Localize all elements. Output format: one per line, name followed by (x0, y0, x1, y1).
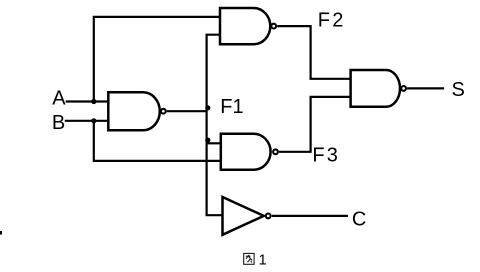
caption glyph 图 (drawn) (244, 253, 254, 264)
node F1 junction dot (205, 105, 210, 110)
svg-text:C: C (352, 208, 366, 230)
wire A branch up to gate U2 pin1 (94, 17, 220, 102)
inverter U5 (output C) (223, 197, 264, 235)
svg-text:B: B (52, 112, 65, 134)
wire S output (407, 87, 444, 89)
wire C output (272, 215, 348, 217)
wire net F1 vertical: up to U2 pin2, down to inverter input (207, 35, 223, 216)
bubble of U4 (273, 149, 278, 154)
nand gate U1 (inputs A,B) (108, 92, 160, 130)
wire A lead (66, 100, 109, 102)
svg-text:F1: F1 (220, 96, 243, 118)
svg-text:S: S (452, 79, 465, 101)
nand gate U3 (output S) (351, 70, 400, 107)
stray mark at left edge (0, 231, 2, 235)
svg-text:F2: F2 (318, 10, 346, 32)
svg-text:A: A (52, 88, 66, 110)
bubble of U5 (266, 214, 271, 219)
wire F3 from U4 output up to U3 pin2 (279, 97, 351, 152)
bubble of U2 (271, 24, 276, 29)
junction dot on B (91, 118, 96, 123)
wire B lead (65, 120, 109, 122)
wire F2 from U2 output down to U3 pin1 (277, 26, 350, 79)
wire stub F1 to U4 pin1 (207, 142, 221, 144)
junction dot on A (91, 99, 96, 104)
junction dot at U4 pin1 (205, 138, 210, 143)
svg-text:F3: F3 (312, 144, 340, 166)
bubble of U1 (161, 109, 166, 114)
nand gate U4 (output F3) (221, 134, 271, 170)
bubble of U3 (401, 86, 406, 91)
wire B branch down to gate U4 pin2 (94, 121, 221, 161)
wire U1 output to node F1 (167, 110, 207, 112)
nand gate U2 (output F2) (220, 8, 270, 44)
svg-text:1: 1 (259, 252, 267, 268)
